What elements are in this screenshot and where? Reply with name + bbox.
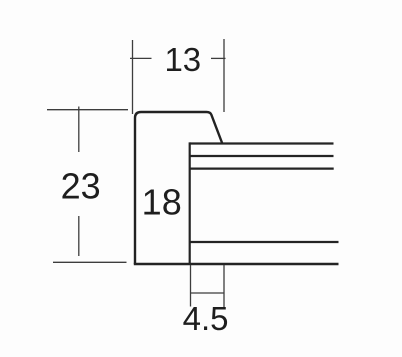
dimension 13 line right segment <box>211 57 226 59</box>
dimension 4.5 line <box>191 292 225 294</box>
dimension 13 line left segment <box>130 57 152 59</box>
dimension 23 line upper segment <box>78 107 80 153</box>
moulding profile outer outline <box>135 112 222 264</box>
second horizontal line <box>190 155 334 157</box>
dimension 23 line lower segment <box>78 216 80 256</box>
bottom edge of profile <box>134 263 339 265</box>
dimension 13 right extension line <box>223 39 225 112</box>
rabbet top line (glass surface) <box>190 142 334 144</box>
dimension 13 left extension line <box>132 40 134 114</box>
fourth horizontal line (back board top) <box>190 241 339 243</box>
svg-text:4.5: 4.5 <box>183 300 229 337</box>
dimension 23 top extension line <box>47 109 128 111</box>
svg-text:23: 23 <box>61 165 101 206</box>
svg-text:13: 13 <box>164 41 201 78</box>
third horizontal line <box>190 168 334 170</box>
dimension 4.5 left extension line <box>190 265 192 307</box>
dimension 23 bottom extension line <box>53 261 127 263</box>
dimension 4.5 right extension line <box>223 265 225 308</box>
svg-text:18: 18 <box>142 182 182 223</box>
inner vertical edge of left leg <box>189 142 191 264</box>
